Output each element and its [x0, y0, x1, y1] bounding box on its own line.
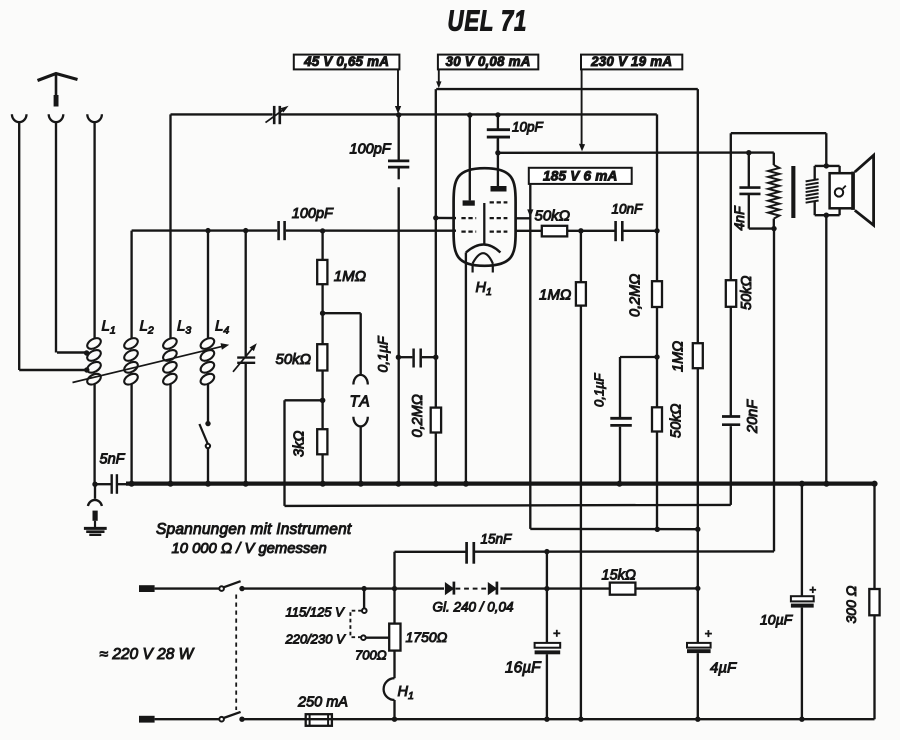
svg-text:20nF: 20nF: [745, 399, 761, 434]
svg-text:16µF: 16µF: [505, 660, 542, 677]
svg-text:30 V 0,08 mA: 30 V 0,08 mA: [446, 54, 531, 69]
svg-text:0,1µF: 0,1µF: [592, 372, 607, 407]
svg-text:0,2MΩ: 0,2MΩ: [628, 274, 644, 317]
svg-text:1MΩ: 1MΩ: [671, 341, 687, 372]
svg-text:10nF: 10nF: [612, 202, 644, 217]
svg-text:300 Ω: 300 Ω: [843, 585, 859, 623]
svg-text:4nF: 4nF: [731, 205, 747, 231]
svg-text:15nF: 15nF: [481, 532, 513, 547]
svg-text:50kΩ: 50kΩ: [739, 276, 755, 310]
svg-text:3kΩ: 3kΩ: [292, 431, 308, 457]
svg-text:1MΩ: 1MΩ: [334, 268, 366, 285]
svg-text:10 000 Ω / V gemessen: 10 000 Ω / V gemessen: [172, 541, 327, 557]
svg-text:10µF: 10µF: [760, 612, 794, 628]
svg-text:230 V 19 mA: 230 V 19 mA: [590, 54, 672, 69]
svg-text:50kΩ: 50kΩ: [669, 404, 685, 438]
svg-text:185 V 6 mA: 185 V 6 mA: [543, 169, 618, 184]
svg-text:10pF: 10pF: [512, 120, 544, 135]
svg-text:115/125 V: 115/125 V: [286, 605, 346, 620]
svg-text:≈ 220 V 28 W: ≈ 220 V 28 W: [100, 646, 195, 663]
svg-text:250 mA: 250 mA: [297, 695, 348, 711]
svg-text:100pF: 100pF: [350, 142, 392, 158]
svg-text:100pF: 100pF: [292, 206, 334, 222]
svg-text:0,1µF: 0,1µF: [375, 335, 391, 373]
svg-text:TA: TA: [350, 394, 372, 411]
svg-text:Gl. 240 / 0,04: Gl. 240 / 0,04: [433, 600, 514, 615]
svg-text:50kΩ: 50kΩ: [535, 208, 571, 225]
svg-text:Spannungen mit Instrument: Spannungen mit Instrument: [156, 521, 352, 538]
svg-text:4µF: 4µF: [710, 660, 737, 677]
svg-text:UEL 71: UEL 71: [448, 6, 528, 37]
svg-text:0,2MΩ: 0,2MΩ: [410, 394, 426, 437]
svg-text:45 V 0,65 mA: 45 V 0,65 mA: [303, 54, 389, 69]
svg-text:220/230 V: 220/230 V: [285, 632, 347, 647]
svg-text:1MΩ: 1MΩ: [539, 287, 571, 304]
svg-text:15kΩ: 15kΩ: [602, 568, 636, 584]
svg-text:700Ω: 700Ω: [355, 648, 387, 663]
svg-text:50kΩ: 50kΩ: [276, 351, 312, 368]
svg-text:5nF: 5nF: [100, 452, 126, 468]
svg-text:1750Ω: 1750Ω: [406, 629, 448, 645]
